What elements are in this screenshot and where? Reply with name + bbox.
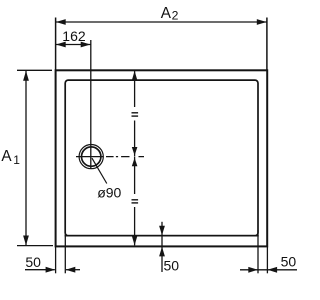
tray outer rectangle	[56, 70, 268, 246]
drain horizontal centerline solid part	[76, 156, 104, 158]
dimension 162: right arrowhead	[81, 42, 91, 48]
bottom-right 50: extension of outer right edge	[266, 247, 268, 274]
dimension A1: bottom arrowhead	[23, 236, 29, 246]
svg-text:A: A	[1, 148, 12, 165]
bottom-center 50: vertical line	[161, 222, 163, 272]
svg-text:162: 162	[62, 28, 86, 44]
bottom-right 50: extension of inner right edge	[257, 230, 259, 273]
dimension A2: extension line left	[55, 18, 57, 71]
svg-text:1: 1	[13, 153, 20, 167]
top arrowhead (to top edge)	[132, 71, 138, 81]
leader line to drain label	[92, 158, 107, 183]
svg-text:50: 50	[25, 254, 41, 270]
bottom-left 50: extension of outer left edge	[55, 247, 57, 274]
tray inner rounded rectangle	[65, 80, 258, 236]
equals symbol upper	[132, 112, 139, 113]
dimension A1: extension line top	[17, 69, 52, 71]
dimension A2: right arrowhead	[257, 19, 267, 25]
svg-text:50: 50	[164, 258, 180, 274]
dimension A1: top arrowhead	[23, 71, 29, 81]
drain centerline vertical (162 extension line)	[90, 40, 92, 169]
dimension A2: extension line right	[266, 18, 268, 71]
bottom-left 50: dimension line with arrows	[25, 269, 55, 271]
dimension 162: left arrowhead	[56, 42, 66, 48]
dimension A2: left arrowhead	[56, 19, 66, 25]
dimension A2: dimension line	[56, 21, 267, 23]
drain horizontal centerline dash-dot part	[106, 156, 144, 158]
dimension A1: dimension line	[25, 71, 27, 246]
bottom-left 50: extension of inner left edge	[64, 230, 66, 273]
svg-text:A: A	[161, 5, 172, 22]
inner rectangle bottom edge squared corners	[65, 235, 259, 237]
meeting arrowheads at drain centerline	[132, 147, 138, 155]
svg-text:2: 2	[172, 9, 179, 23]
svg-text:50: 50	[281, 254, 297, 270]
bottom arrowhead (to bottom edge)	[132, 236, 138, 246]
equals symbol lower	[132, 199, 139, 200]
bottom-center 50: arrows	[159, 226, 165, 236]
bottom-right 50: dimension line with arrows	[240, 269, 297, 271]
svg-text:ø90: ø90	[97, 184, 121, 200]
drain inner circle	[82, 147, 101, 166]
dimension A1: extension line bottom	[17, 245, 53, 247]
drain outer circle	[79, 145, 103, 169]
centered-drain vertical dimension line segments at x=134	[134, 71, 136, 107]
dimension 162: dimension line	[56, 44, 91, 46]
